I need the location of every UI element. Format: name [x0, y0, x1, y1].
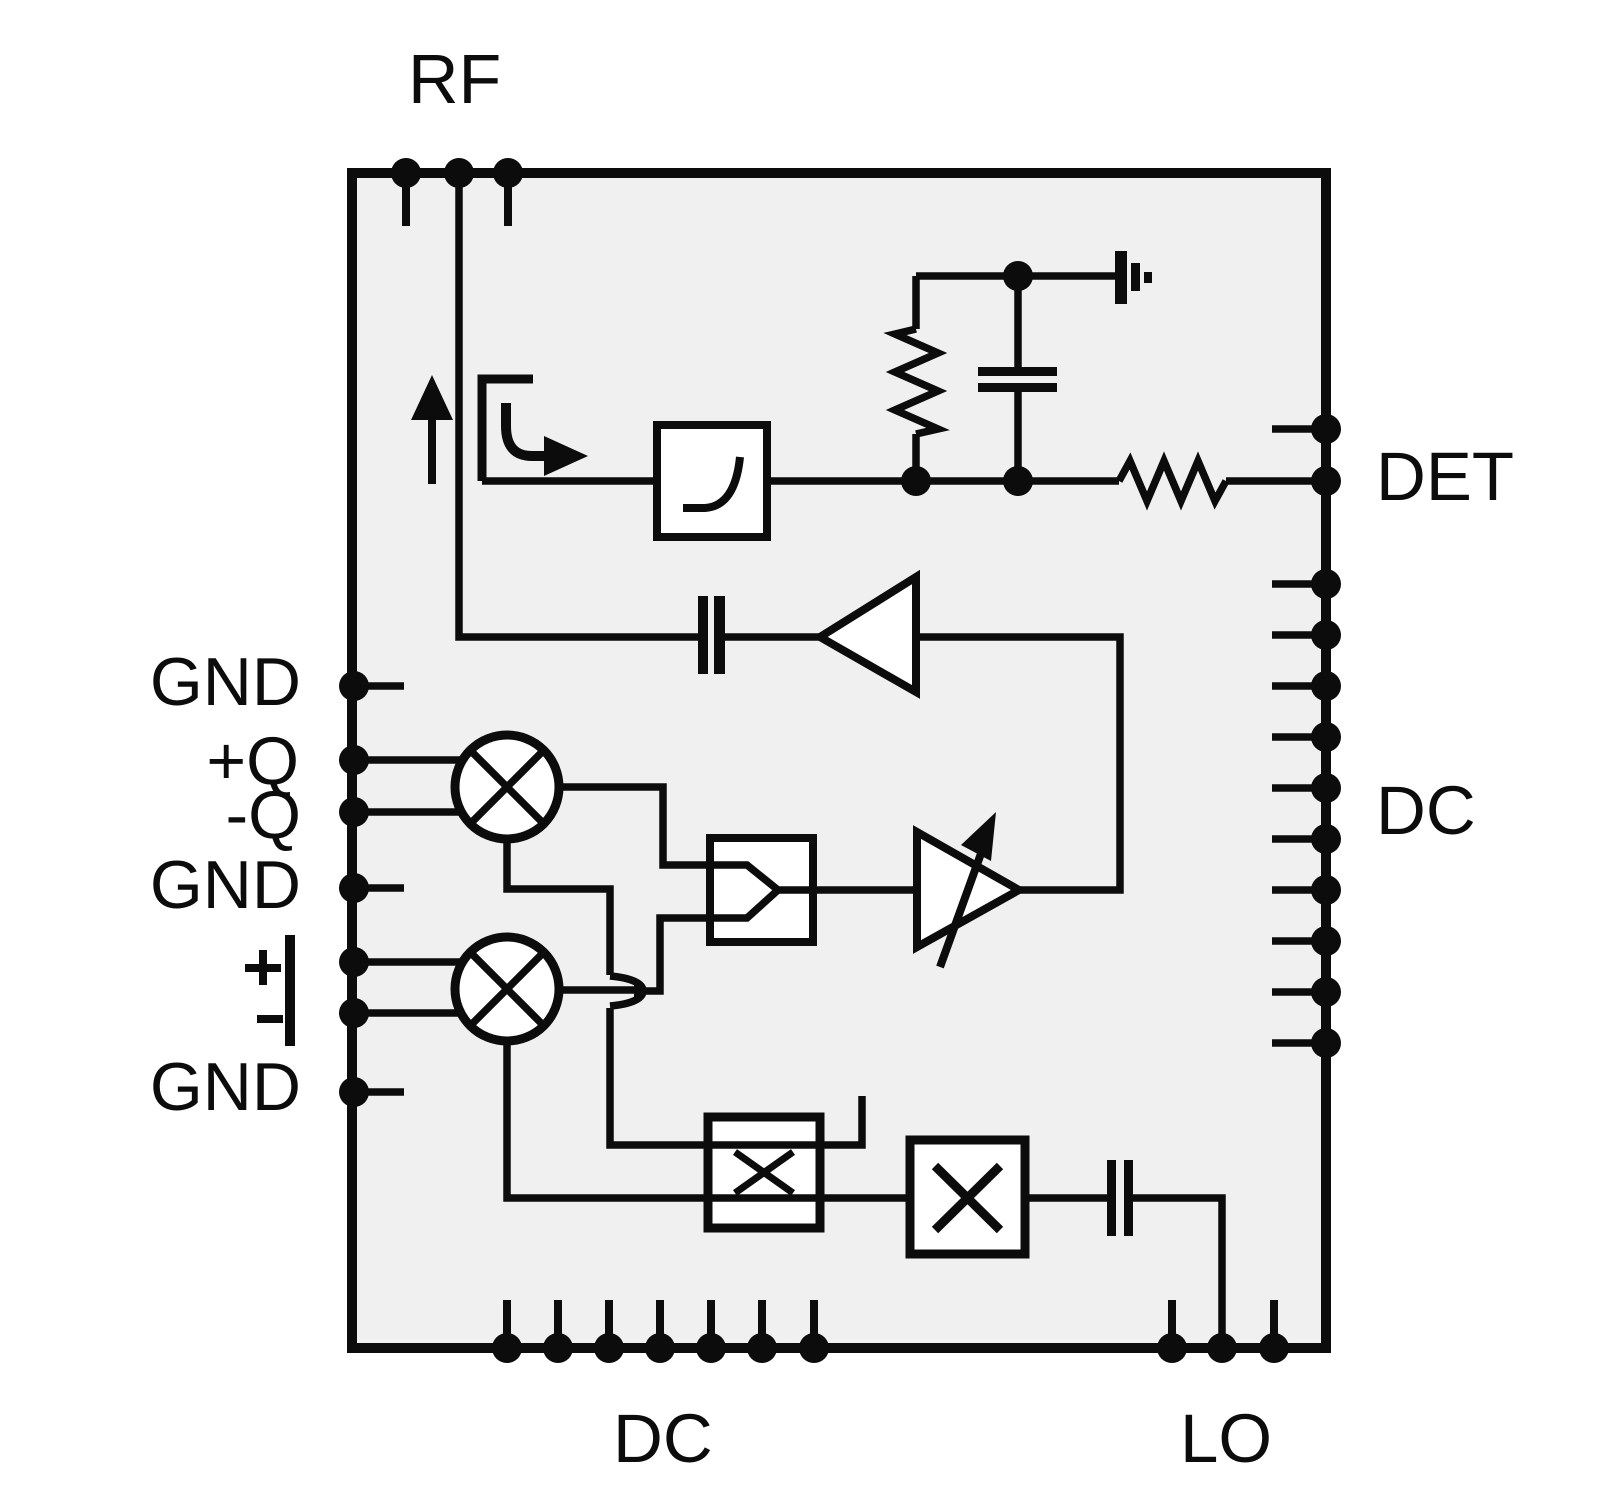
wire Q mixer LO port down with hop	[507, 839, 610, 975]
label +I (plus sign)	[245, 935, 295, 998]
node merge beak	[634, 983, 650, 999]
node junction dots on detector line	[901, 261, 1033, 496]
pins LO bottom group	[1157, 1300, 1289, 1363]
pins DC right side	[1272, 569, 1341, 1058]
wire RF line from top pin down to feedback cap	[459, 173, 700, 637]
pin DET stub	[1272, 414, 1341, 496]
resistor R1 (shunt, vertical)	[895, 329, 938, 434]
resistor R2 (series to DET pin)	[1119, 461, 1226, 501]
combiner U2 (summer box)	[710, 838, 813, 942]
label -I (minus and bar)	[257, 984, 295, 1046]
wire resistor R1 bottom lead	[912, 434, 920, 481]
svg-text:DC: DC	[1376, 772, 1476, 849]
svg-text:GND: GND	[150, 1049, 301, 1125]
pin -Q	[339, 797, 369, 827]
wire I mixer output to combiner bottom input	[559, 986, 643, 994]
wire I mixer LO port to splitter bottom line	[507, 1041, 910, 1198]
pin RF group (top)	[391, 158, 523, 226]
wire coupled line to detector box	[482, 477, 657, 485]
wire capacitor C1 bottom lead	[1014, 392, 1022, 481]
wire feedback cap to amplifier	[723, 633, 820, 641]
wire -Q input	[354, 808, 470, 816]
svg-text:LO: LO	[1180, 1400, 1272, 1477]
capacitor C3 (LO coupling)	[1107, 1160, 1133, 1236]
directional coupler arrow up	[411, 375, 453, 484]
wire combiner output to VGA	[813, 886, 917, 894]
capacitor C1 (shunt, horizontal plates)	[978, 367, 1057, 392]
wire Q mixer output to combiner top input	[559, 787, 710, 865]
pin -I	[339, 998, 369, 1028]
chip body	[352, 173, 1326, 1348]
svg-text:DET: DET	[1376, 438, 1514, 515]
LO quadrature splitter box (drawn early so wires pass over it)	[708, 1117, 820, 1228]
wire +Q input	[354, 756, 470, 764]
pin +Q	[339, 745, 369, 775]
wire +I input	[354, 958, 470, 966]
detector U1 (box with diode curve)	[657, 425, 767, 537]
wire GND stub 1	[354, 682, 404, 690]
wire splitter to LO buffer handled above; wire buffer to LO cap	[1025, 1194, 1108, 1202]
pin +I	[339, 947, 369, 977]
mixer M1 (Q)	[455, 735, 559, 839]
wire GND stub 2	[354, 884, 404, 892]
mixer M2 (I)	[455, 937, 559, 1041]
wire GND stub 3	[354, 1088, 404, 1096]
pin GND3	[339, 1077, 369, 1107]
wire resistor R1 top lead	[912, 276, 920, 329]
wire amplifier input from loop	[916, 637, 1120, 890]
wire LO cap to LO pin	[1133, 1198, 1222, 1348]
wire splitter top through line to stub	[708, 1096, 862, 1145]
svg-text:GND: GND	[150, 644, 301, 720]
ground	[1115, 251, 1152, 304]
wire hop over I output	[610, 976, 643, 1006]
wire top of RC filter to ground	[916, 272, 1116, 280]
wire capacitor C1 top lead	[1014, 276, 1022, 367]
VGA U3 (variable gain amplifier)	[917, 812, 1019, 967]
pins DC bottom group	[492, 1300, 829, 1363]
pin GND2	[339, 873, 369, 903]
svg-text:GND: GND	[150, 847, 301, 923]
wire Q LO vertical to splitter	[610, 1008, 708, 1145]
svg-text:RF: RF	[408, 40, 501, 118]
wire detector box to DET resistor	[767, 477, 1119, 485]
svg-text:-Q: -Q	[225, 777, 301, 853]
amplifier A1 (points left)	[820, 577, 916, 692]
svg-text:DC: DC	[613, 1400, 713, 1477]
wire DET resistor to DET pin	[1226, 477, 1326, 485]
capacitor C2 (RF coupling, series)	[698, 596, 725, 674]
directional coupler curved arrow	[506, 403, 588, 476]
pin GND1	[339, 671, 369, 701]
splitter X symbol inside box	[735, 1152, 793, 1193]
LO buffer U4 (box with X)	[910, 1140, 1025, 1254]
wire -I input	[354, 1009, 470, 1017]
directional coupler bracket	[482, 379, 533, 481]
wire node merge to combiner bottom input	[642, 918, 710, 991]
